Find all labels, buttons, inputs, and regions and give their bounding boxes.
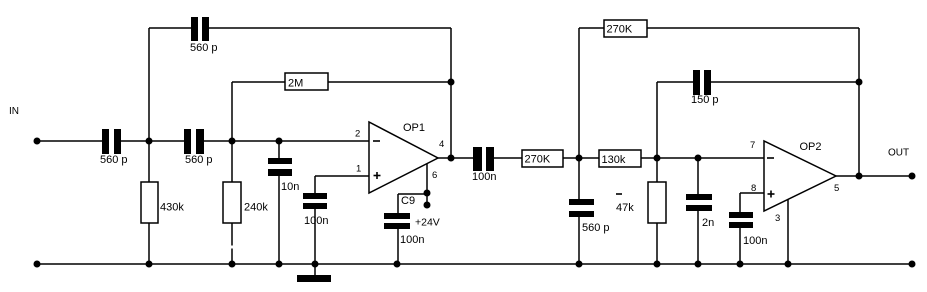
svg-text:OUT: OUT: [888, 148, 909, 159]
svg-text:+24V: +24V: [415, 217, 440, 229]
svg-text:560 p: 560 p: [190, 42, 218, 54]
svg-text:8: 8: [751, 183, 756, 194]
svg-text:270K: 270K: [607, 24, 633, 36]
svg-text:3: 3: [775, 213, 780, 224]
svg-text:240k: 240k: [244, 202, 268, 214]
svg-text:270K: 270K: [525, 154, 551, 166]
svg-text:5: 5: [834, 183, 839, 194]
svg-text:100n: 100n: [400, 234, 424, 246]
svg-text:4: 4: [439, 139, 444, 150]
svg-text:560 p: 560 p: [185, 154, 213, 166]
svg-text:10n: 10n: [281, 181, 299, 193]
svg-text:2M: 2M: [288, 78, 303, 90]
svg-text:C9: C9: [401, 195, 415, 207]
svg-text:560 p: 560 p: [582, 222, 610, 234]
svg-text:1: 1: [356, 164, 361, 175]
svg-text:430k: 430k: [160, 202, 184, 214]
svg-text:560 p: 560 p: [100, 154, 128, 166]
svg-text:100n: 100n: [472, 171, 496, 183]
svg-text:2n: 2n: [702, 217, 714, 229]
svg-text:47k: 47k: [616, 202, 634, 214]
svg-text:7: 7: [750, 140, 755, 151]
svg-text:100n: 100n: [304, 215, 328, 227]
svg-text:OP2: OP2: [800, 141, 822, 153]
svg-text:OP1: OP1: [403, 122, 425, 134]
svg-text:150 p: 150 p: [691, 94, 719, 106]
svg-text:6: 6: [432, 170, 437, 181]
svg-text:100n: 100n: [743, 235, 767, 247]
svg-text:130k: 130k: [602, 154, 626, 166]
svg-text:2: 2: [355, 129, 360, 140]
svg-text:IN: IN: [9, 106, 19, 117]
